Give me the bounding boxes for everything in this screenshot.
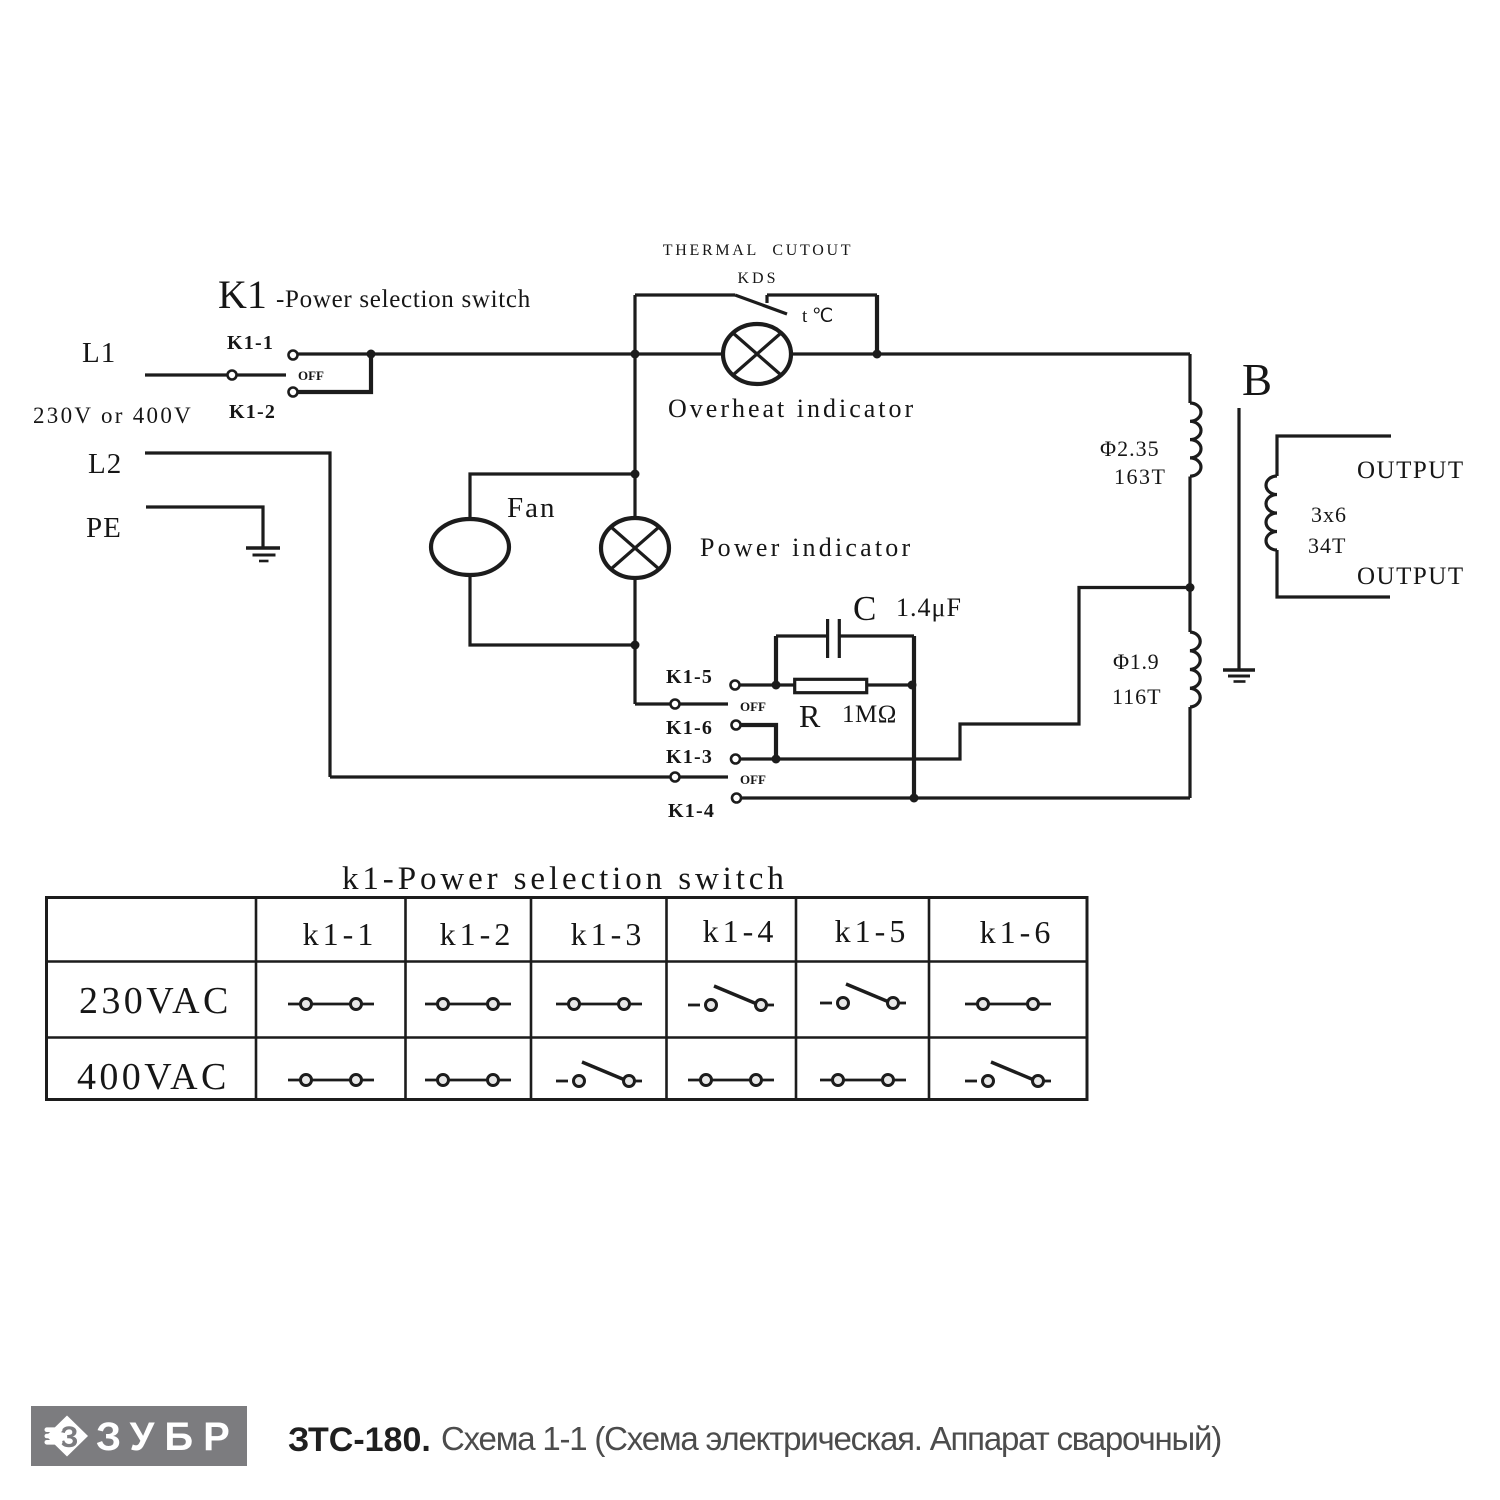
svg-text:K1-5: K1-5 bbox=[666, 666, 713, 688]
junction main bus left bbox=[367, 350, 376, 359]
wire K1-2 branch bbox=[298, 354, 371, 392]
resistor R bbox=[795, 679, 867, 692]
svg-text:ЗТС-180.: ЗТС-180. bbox=[288, 1421, 431, 1459]
inductor primary upper bbox=[1190, 403, 1201, 476]
svg-text:OFF: OFF bbox=[298, 368, 324, 383]
switch cell 230 k1-1 closed bbox=[288, 999, 374, 1010]
junction bus x877 bbox=[873, 350, 882, 359]
svg-text:OUTPUT: OUTPUT bbox=[1357, 563, 1465, 590]
svg-text:3x6: 3x6 bbox=[1311, 502, 1347, 527]
inductor primary lower bbox=[1190, 632, 1200, 707]
svg-text:400VAC: 400VAC bbox=[77, 1056, 230, 1098]
switch pole lower contact bbox=[671, 773, 680, 782]
svg-text:k1-2: k1-2 bbox=[440, 916, 515, 952]
wire to lower pole bbox=[635, 702, 670, 705]
svg-text:K1: K1 bbox=[218, 272, 267, 317]
svg-text:K1-1: K1-1 bbox=[227, 332, 274, 354]
wire primary top bbox=[1188, 354, 1191, 403]
switch cell 400 k1-1 closed bbox=[288, 1075, 374, 1086]
svg-text:1MΩ: 1MΩ bbox=[842, 701, 897, 728]
svg-text:З: З bbox=[60, 1421, 79, 1454]
wire primary bottom bbox=[1188, 707, 1191, 798]
wire thermal bypass left bbox=[635, 293, 735, 296]
svg-text:Схема 1-1 (Схема электрическая: Схема 1-1 (Схема электрическая. Аппарат … bbox=[441, 1420, 1221, 1457]
svg-text:OFF: OFF bbox=[740, 699, 766, 714]
svg-text:t ℃: t ℃ bbox=[802, 306, 833, 327]
svg-text:L2: L2 bbox=[88, 448, 122, 480]
svg-text:Φ1.9: Φ1.9 bbox=[1113, 649, 1159, 674]
wire K1-5 to resistor bbox=[740, 683, 795, 686]
wire secondary bottom bbox=[1277, 550, 1390, 597]
switch cell 230 k1-5 open bbox=[820, 984, 906, 1009]
svg-text:Power indicator: Power indicator bbox=[700, 533, 913, 562]
junction K1-4 wire bbox=[910, 794, 919, 803]
junction fan top bbox=[631, 470, 640, 479]
fan motor bbox=[431, 519, 509, 575]
svg-text:KDS: KDS bbox=[737, 270, 778, 287]
wire K1-6 down bbox=[741, 725, 776, 759]
svg-text:k1-6: k1-6 bbox=[980, 914, 1055, 950]
switch K1 arm OFF bbox=[237, 373, 286, 376]
lamp power indicator bbox=[601, 518, 669, 578]
logo diamond bbox=[46, 1416, 88, 1457]
svg-text:K1-6: K1-6 bbox=[666, 717, 713, 739]
junction primary tap bbox=[1186, 583, 1195, 592]
wire fan bottom bbox=[470, 575, 635, 645]
svg-text:OUTPUT: OUTPUT bbox=[1357, 457, 1465, 484]
wire center vertical bbox=[633, 295, 636, 704]
wire secondary top bbox=[1277, 436, 1391, 476]
logo ZUBR box bbox=[31, 1406, 247, 1466]
svg-text:Overheat indicator: Overheat indicator bbox=[668, 394, 916, 423]
svg-text:THERMAL CUTOUT: THERMAL CUTOUT bbox=[663, 242, 853, 259]
svg-text:C: C bbox=[853, 589, 876, 628]
switch KDS contact tick bbox=[765, 295, 768, 303]
logo speed bars bbox=[45, 1427, 63, 1444]
wire fan top bbox=[470, 474, 635, 519]
switch KDS blade bbox=[735, 295, 787, 314]
svg-text:Φ2.35: Φ2.35 bbox=[1100, 436, 1160, 461]
switch cell 230 k1-6 closed bbox=[965, 999, 1051, 1010]
svg-text:R: R bbox=[799, 698, 821, 734]
svg-text:k1-4: k1-4 bbox=[703, 913, 778, 949]
wire thermal bypass right bbox=[767, 293, 877, 296]
junction K1-3 wire bbox=[772, 755, 781, 764]
wire right vertical bbox=[912, 636, 916, 798]
svg-text:ЗУБР: ЗУБР bbox=[96, 1415, 240, 1459]
ground core bbox=[1223, 670, 1255, 682]
table grid bbox=[47, 898, 1088, 1100]
inductor secondary bbox=[1266, 476, 1277, 550]
switch cell 400 k1-3 open bbox=[556, 1062, 642, 1087]
switch cell 230 k1-3 closed bbox=[556, 999, 642, 1010]
svg-text:L1: L1 bbox=[82, 337, 116, 369]
svg-text:k1-1: k1-1 bbox=[303, 916, 378, 952]
wire L2 bbox=[145, 453, 330, 777]
svg-text:116T: 116T bbox=[1112, 684, 1162, 709]
terminal K1-2 bbox=[289, 388, 298, 397]
switch cell 400 k1-2 closed bbox=[425, 1075, 511, 1086]
svg-text:K1-3: K1-3 bbox=[666, 746, 713, 768]
switch K1 pole contact bbox=[228, 371, 237, 380]
terminal K1-3 bbox=[731, 755, 740, 764]
switch arm OFF upper bbox=[680, 702, 728, 705]
junction bus x635 bbox=[631, 350, 640, 359]
capacitor C bbox=[828, 619, 840, 658]
wire cap branch up bbox=[774, 636, 778, 685]
switch cell 400 k1-4 closed bbox=[688, 1075, 774, 1086]
terminal K1-1 bbox=[289, 351, 298, 360]
switch pole upper contact bbox=[671, 700, 680, 709]
wire resistor right bbox=[867, 683, 914, 686]
svg-text:34T: 34T bbox=[1308, 533, 1346, 558]
wire cap left bbox=[776, 634, 828, 637]
wire main bus bbox=[298, 352, 1190, 355]
svg-text:K1-4: K1-4 bbox=[668, 800, 715, 822]
svg-text:k1-5: k1-5 bbox=[835, 913, 910, 949]
wire K1-4 to transformer bbox=[742, 796, 1190, 799]
junction resistor right bbox=[908, 681, 917, 690]
svg-text:OFF: OFF bbox=[740, 772, 766, 787]
switch cell 400 k1-5 closed bbox=[820, 1075, 906, 1086]
terminal K1-4 bbox=[732, 794, 741, 803]
junction fan bottom bbox=[631, 641, 640, 650]
svg-text:k1-Power selection switch: k1-Power selection switch bbox=[342, 861, 788, 897]
svg-text:PE: PE bbox=[86, 512, 122, 544]
wire primary middle bbox=[1188, 477, 1191, 633]
terminal K1-5 bbox=[731, 681, 740, 690]
transformer core bbox=[1237, 408, 1240, 669]
svg-text:K1-2: K1-2 bbox=[229, 401, 276, 423]
wire K1-3 step to transformer bbox=[741, 588, 1190, 760]
svg-text:B: B bbox=[1242, 355, 1272, 405]
wire L1 lead bbox=[145, 373, 227, 376]
lamp overheat bbox=[723, 324, 791, 384]
svg-text:230V or 400V: 230V or 400V bbox=[33, 403, 193, 428]
terminal K1-6 bbox=[732, 721, 741, 730]
switch arm OFF lower bbox=[680, 775, 728, 778]
ground PE bbox=[246, 548, 280, 561]
switch cell 400 k1-6 open bbox=[965, 1062, 1051, 1087]
wire L2 to pole bbox=[330, 775, 670, 778]
wire bypass right drop bbox=[875, 295, 879, 354]
svg-text:-Power selection switch: -Power selection switch bbox=[276, 286, 531, 313]
svg-text:k1-3: k1-3 bbox=[571, 916, 646, 952]
switch cell 230 k1-4 open bbox=[688, 986, 774, 1011]
wire PE bbox=[146, 507, 263, 548]
svg-text:Fan: Fan bbox=[507, 492, 557, 524]
svg-text:1.4μF: 1.4μF bbox=[896, 593, 962, 622]
svg-text:230VAC: 230VAC bbox=[79, 980, 232, 1022]
switch cell 230 k1-2 closed bbox=[425, 999, 511, 1010]
junction cap branch bbox=[772, 681, 781, 690]
wire cap right bbox=[839, 634, 914, 637]
svg-text:163T: 163T bbox=[1114, 464, 1166, 489]
